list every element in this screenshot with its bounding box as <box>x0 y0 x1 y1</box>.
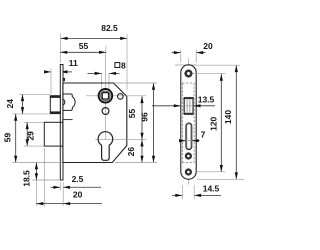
middle screw hole <box>185 152 192 159</box>
svg-text:29: 29 <box>26 131 36 141</box>
dimension 18.5 <box>35 163 37 181</box>
svg-text:2.5: 2.5 <box>72 174 84 184</box>
faceplate front view outline <box>181 65 196 180</box>
wire: extension line right end of 82.5 at case back <box>126 34 128 90</box>
svg-text:96: 96 <box>139 112 149 122</box>
dimension 11 (latch projection) <box>44 71 51 73</box>
centerline vertical through hub/cylinder <box>105 54 107 141</box>
spindle hub U-follower <box>99 89 113 103</box>
dimension 13.5 (latch width) <box>152 105 181 107</box>
svg-text:140: 140 <box>223 110 233 124</box>
svg-text:7: 7 <box>201 129 206 139</box>
svg-text:11: 11 <box>69 58 78 68</box>
svg-text:120: 120 <box>209 116 219 130</box>
euro profile cylinder hole <box>98 132 113 161</box>
dimension 55 vertical (hub to cylinder) <box>141 96 143 139</box>
dimension square 8 (spindle hole) <box>88 72 102 74</box>
svg-text:55: 55 <box>79 41 89 51</box>
dimension 120 (screw centres) <box>220 74 222 172</box>
latch bolt (side view, through plate) <box>50 96 60 114</box>
dimension 140 (faceplate length) <box>235 65 237 179</box>
dimension 20 (faceplate width, top) <box>172 52 181 54</box>
svg-text:20: 20 <box>73 190 83 200</box>
deadbolt (side view, thrown) <box>44 122 63 146</box>
dimension 26 (cylinder to case bottom) <box>141 140 143 163</box>
svg-text:20: 20 <box>203 41 213 51</box>
centerline horizontal through cylinder <box>95 139 147 141</box>
screw hole below hub <box>102 108 109 115</box>
square 8mm spindle hole <box>102 93 108 99</box>
svg-text:8: 8 <box>121 60 126 70</box>
latch bolt tail (inside case) <box>63 94 75 110</box>
dimension 2.5 (faceplate thickness) <box>51 186 61 188</box>
deadbolt slot front view <box>186 123 192 150</box>
wire: extension of 55 down to hub centre <box>105 46 107 54</box>
svg-text:14.5: 14.5 <box>203 184 220 194</box>
latch bolt front view <box>184 98 193 115</box>
mounting hole right of hub <box>118 94 124 100</box>
dimension 20 (bottom left) <box>37 203 64 205</box>
dimension 55 (backset, top) <box>60 51 106 53</box>
follower cam arc near plate <box>63 99 65 105</box>
svg-text:18.5: 18.5 <box>22 170 32 187</box>
dimension 96 (case height) <box>153 83 155 163</box>
bottom screw hole <box>185 168 192 175</box>
svg-text:59: 59 <box>3 133 13 143</box>
wire: extension case top right <box>114 82 157 84</box>
wire: bolt guide line inside case <box>63 119 73 121</box>
wire: extension case bottom right <box>115 162 157 164</box>
centerline of faceplate front view <box>188 59 190 185</box>
wire: deadbolt face extension down <box>43 148 45 207</box>
centerline horizontal through hub <box>86 95 146 97</box>
svg-text:24: 24 <box>5 99 15 109</box>
dimension 14.5 (bottom) <box>172 194 182 196</box>
svg-text:82.5: 82.5 <box>101 23 118 33</box>
wire: projection extension line from faceplate top (left view vertical ext for 82.5/55) <box>59 34 61 64</box>
top screw hole <box>184 73 226 75</box>
dimension 59 (left) <box>15 114 17 163</box>
dimension 29 (deadbolt height) <box>26 122 28 146</box>
svg-text:13.5: 13.5 <box>198 94 215 104</box>
dimension 7 (slot width) <box>179 140 186 142</box>
svg-text:55: 55 <box>127 109 137 119</box>
latch cutout front view <box>184 98 194 115</box>
dimension 82.5 <box>61 37 127 39</box>
hidden case edges (dashed) behind plate <box>181 83 183 163</box>
svg-text:26: 26 <box>126 147 136 157</box>
faceplate (side view) <box>60 65 63 181</box>
extension line case bottom to left <box>12 162 62 164</box>
dimension 24 (latch height, left) <box>22 94 24 114</box>
lock case outline <box>63 83 127 163</box>
centerline through latch <box>178 105 196 107</box>
wire: plate top extension line <box>175 64 197 66</box>
stop pin on plate edge <box>63 78 66 81</box>
